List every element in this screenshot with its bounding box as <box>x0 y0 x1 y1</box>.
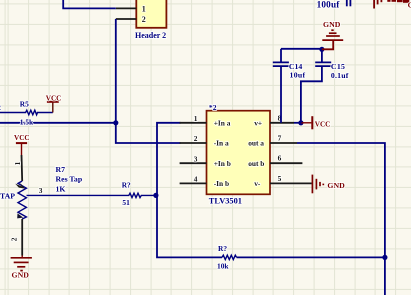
svg-text:5: 5 <box>278 174 282 183</box>
wire long left net <box>0 122 116 124</box>
svg-text:2: 2 <box>194 134 198 143</box>
svg-text:VCC: VCC <box>46 95 62 103</box>
svg-text:1: 1 <box>142 5 146 14</box>
svg-text:C15: C15 <box>331 62 345 71</box>
svg-text:-In b: -In b <box>214 179 229 188</box>
wire pin8 to VCC <box>294 122 302 124</box>
svg-text:0.1uf: 0.1uf <box>331 71 349 80</box>
svg-text:1: 1 <box>13 161 22 165</box>
IC pin 6 stub <box>270 162 302 164</box>
ground GND at pot <box>11 256 32 280</box>
header pin 1 stub <box>116 7 137 9</box>
svg-text:2: 2 <box>10 237 19 241</box>
wire header pin1 to top edge <box>63 0 116 8</box>
junction output/feedback <box>382 255 387 260</box>
IC pin 2 stub <box>180 142 207 144</box>
header pin 2 stub <box>116 18 137 20</box>
IC pin 7 stub <box>270 142 297 144</box>
wire pot bottom to GND <box>21 219 23 256</box>
junction cap top / GND <box>319 47 324 52</box>
svg-text:G: G <box>408 1 411 10</box>
svg-text:2: 2 <box>0 103 1 112</box>
svg-text:2: 2 <box>142 15 146 24</box>
svg-text:7: 7 <box>278 134 282 143</box>
wire VCC to pot top <box>21 155 24 181</box>
IC pin 4 stub <box>180 182 207 184</box>
svg-text:+In a: +In a <box>214 118 231 127</box>
junction left net <box>113 120 118 125</box>
capacitor C14 <box>273 49 306 123</box>
connector J1 Header 2 box <box>136 0 166 28</box>
wire IC pin1 feedback loop <box>157 123 222 258</box>
potentiometer R7 (Res Tap) <box>15 181 26 219</box>
svg-text:out b: out b <box>248 159 264 168</box>
svg-text:*2: *2 <box>209 103 217 112</box>
resistor R? 10k <box>217 244 237 270</box>
svg-text:GND: GND <box>327 181 345 190</box>
svg-text:Res Tap: Res Tap <box>56 174 83 183</box>
wire C14 top to C15 top <box>281 48 322 50</box>
IC pin 3 stub <box>180 162 207 164</box>
resistor R5 <box>0 99 53 126</box>
svg-text:-In a: -In a <box>214 139 229 148</box>
svg-text:v+: v+ <box>254 118 262 127</box>
svg-text:v-: v- <box>254 179 261 188</box>
junction tap/feedback <box>153 193 158 198</box>
svg-text:R5: R5 <box>20 99 29 108</box>
svg-text:10uf: 10uf <box>290 71 306 80</box>
svg-text:VCC: VCC <box>14 134 30 142</box>
svg-text:1.5k: 1.5k <box>20 118 34 127</box>
wire pot tap to R? 51 to feedback node <box>27 193 156 197</box>
power port VCC at R5 <box>46 95 62 113</box>
svg-text:10k: 10k <box>217 261 229 270</box>
power port VCC at potentiometer <box>14 134 30 155</box>
svg-text:51: 51 <box>122 198 130 207</box>
IC pin 5 stub <box>270 182 312 184</box>
ground GND above C15 <box>322 20 343 49</box>
IC pin 8 stub <box>270 122 294 124</box>
svg-text:+In b: +In b <box>214 159 231 168</box>
svg-text:TLV3501: TLV3501 <box>209 197 242 206</box>
IC pin 1 stub <box>180 122 207 124</box>
svg-text:3: 3 <box>194 154 198 163</box>
svg-text:GND: GND <box>323 20 341 29</box>
wire output net down <box>384 257 386 295</box>
power port VCC at pin 8 <box>301 116 330 129</box>
junction pin8/C15 <box>298 120 303 125</box>
svg-text:1K: 1K <box>56 184 66 193</box>
svg-text:4: 4 <box>194 175 198 184</box>
svg-text:R?: R? <box>218 244 227 253</box>
ground symbol cut at top right <box>374 0 381 9</box>
svg-text:1: 1 <box>194 114 198 123</box>
IC U2 TLV3501 box <box>207 111 271 195</box>
wire IC pin7 out a to right <box>297 143 385 257</box>
svg-text:6: 6 <box>278 154 282 163</box>
svg-text:TAP: TAP <box>0 191 15 200</box>
capacitor 100uf at top edge <box>317 0 351 10</box>
svg-text:100uf: 100uf <box>317 0 341 10</box>
svg-text:VCC: VCC <box>315 121 331 129</box>
ground GND at pin 5 <box>312 175 345 194</box>
svg-text:R7: R7 <box>56 165 66 174</box>
capacitor C15 <box>301 49 349 123</box>
cut text remnants top right <box>387 0 409 3</box>
svg-text:GND: GND <box>12 270 30 279</box>
svg-text:out a: out a <box>248 139 264 148</box>
wire R? 10k to output node <box>237 256 385 258</box>
wire header pin2 down to IC pin2 <box>116 19 181 143</box>
svg-text:R?: R? <box>122 181 131 190</box>
svg-text:3: 3 <box>39 186 43 195</box>
svg-text:Header 2: Header 2 <box>135 31 166 40</box>
